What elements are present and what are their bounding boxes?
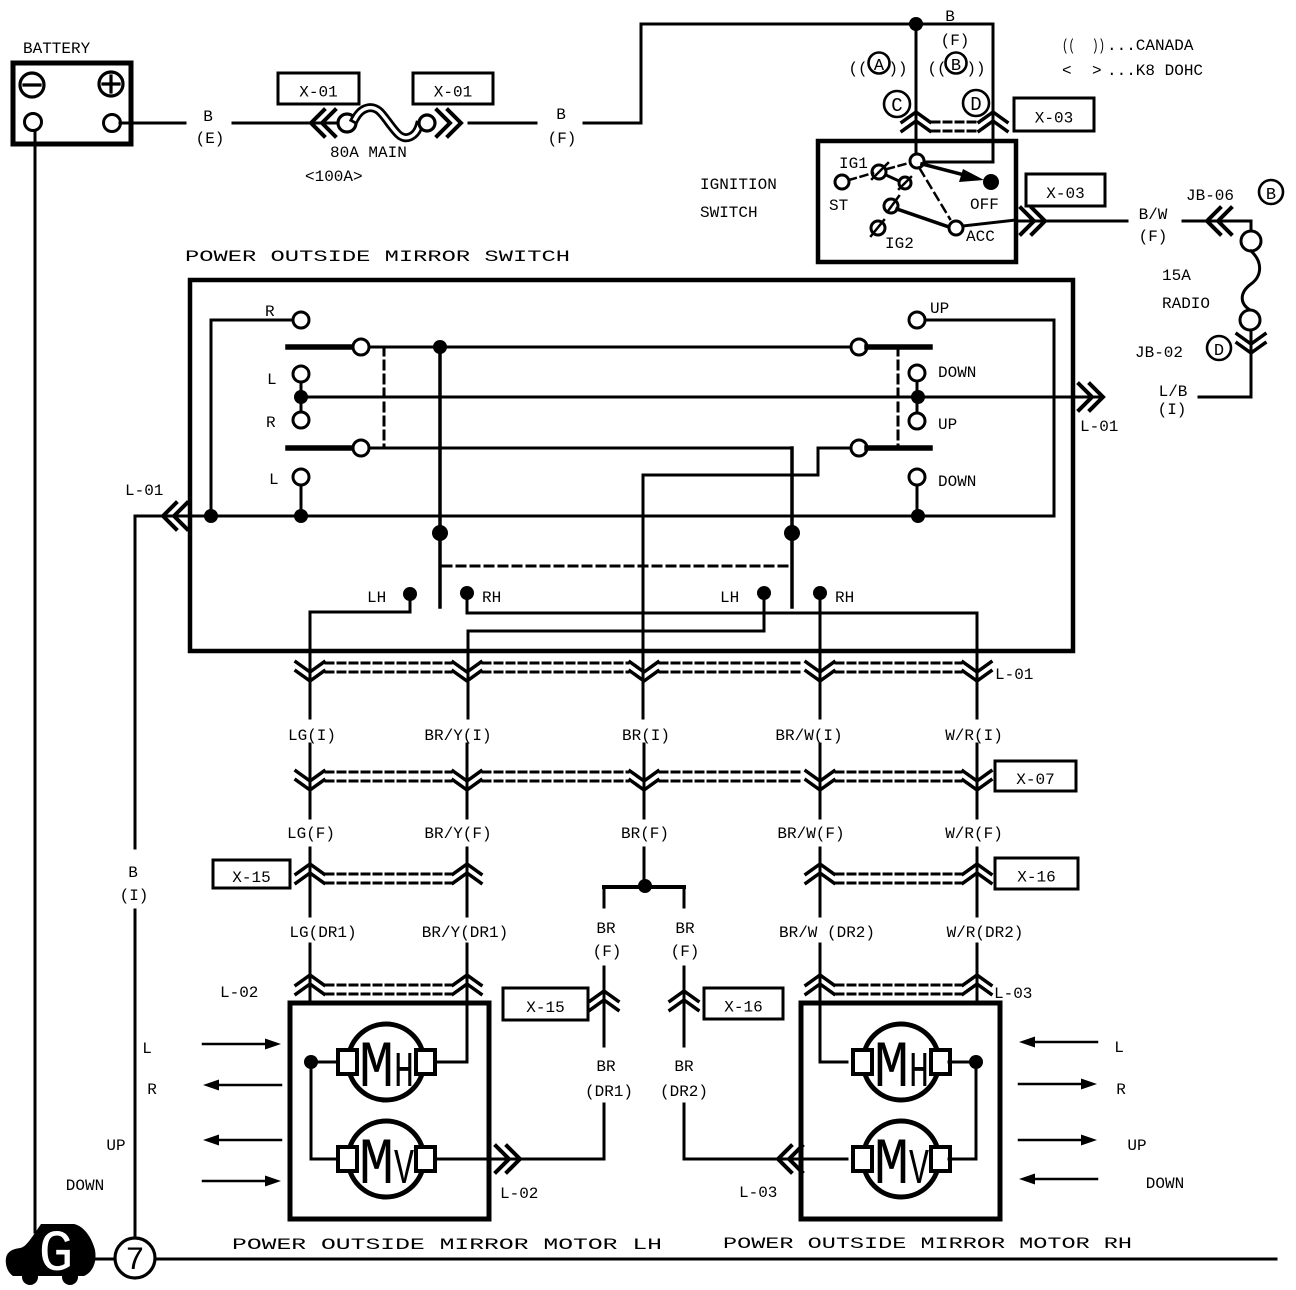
svg-text:)): ))	[889, 60, 908, 78]
svg-text:M: M	[359, 1128, 394, 1203]
svg-text:80A MAIN: 80A MAIN	[330, 144, 407, 162]
svg-text:BR/W(F): BR/W(F)	[777, 825, 844, 843]
svg-text:D: D	[970, 94, 981, 116]
svg-text:BR: BR	[596, 1058, 616, 1076]
svg-text:(F): (F)	[671, 943, 700, 961]
svg-text:B: B	[556, 106, 566, 124]
svg-text:IG1: IG1	[839, 155, 868, 173]
svg-text:ST: ST	[829, 197, 848, 215]
svg-text:7: 7	[125, 1242, 144, 1279]
svg-text:BATTERY: BATTERY	[23, 40, 91, 58]
svg-text:R: R	[266, 414, 276, 432]
svg-text:(DR2): (DR2)	[660, 1083, 708, 1101]
svg-text:L-02: L-02	[220, 984, 258, 1002]
svg-text:B: B	[951, 57, 961, 76]
svg-text:L-03: L-03	[994, 985, 1032, 1003]
svg-text:M: M	[874, 1128, 909, 1203]
svg-text:(F): (F)	[941, 32, 970, 50]
svg-text:UP: UP	[938, 416, 957, 434]
svg-text:L: L	[142, 1040, 152, 1058]
svg-text:UP: UP	[930, 300, 949, 318]
svg-text:X-03: X-03	[1035, 110, 1073, 128]
svg-text:POWER OUTSIDE MIRROR MOTOR RH: POWER OUTSIDE MIRROR MOTOR RH	[723, 1235, 1132, 1253]
svg-text:(I): (I)	[1158, 401, 1187, 419]
svg-text:H: H	[394, 1045, 414, 1102]
svg-text:(F): (F)	[1139, 228, 1168, 246]
svg-text:(F): (F)	[548, 130, 577, 148]
svg-text:(DR1): (DR1)	[585, 1083, 633, 1101]
svg-text:IG2: IG2	[885, 235, 914, 253]
svg-text:SWITCH: SWITCH	[700, 204, 758, 222]
svg-text:((: ((	[928, 60, 947, 78]
svg-text:)): ))	[967, 60, 986, 78]
svg-text:L/B: L/B	[1159, 383, 1188, 401]
svg-text:X-16: X-16	[1017, 869, 1055, 887]
svg-text:L-03: L-03	[739, 1184, 777, 1202]
svg-text:15A: 15A	[1162, 267, 1191, 285]
svg-text:DOWN: DOWN	[938, 364, 976, 382]
svg-text:M: M	[874, 1031, 909, 1106]
svg-text:D: D	[1214, 342, 1224, 361]
svg-text:LH: LH	[367, 589, 386, 607]
svg-text:X-15: X-15	[526, 999, 564, 1017]
svg-text:L-02: L-02	[500, 1185, 538, 1203]
svg-text:M: M	[359, 1031, 394, 1106]
svg-text:C: C	[891, 95, 902, 117]
svg-text:((: ((	[1062, 37, 1075, 55]
svg-text:UP: UP	[106, 1137, 125, 1155]
svg-text:BR/Y(DR1): BR/Y(DR1)	[422, 924, 508, 942]
svg-text:DOWN: DOWN	[1146, 1175, 1184, 1193]
svg-text:B: B	[128, 864, 138, 882]
svg-text:B: B	[945, 8, 955, 26]
svg-text:L: L	[1114, 1039, 1124, 1057]
svg-text:H: H	[909, 1045, 929, 1102]
svg-text:UP: UP	[1127, 1137, 1146, 1155]
svg-text:W/R(I): W/R(I)	[945, 727, 1003, 745]
svg-text:G: G	[39, 1223, 74, 1288]
svg-text:...CANADA: ...CANADA	[1107, 37, 1194, 55]
svg-text:JB-06: JB-06	[1186, 187, 1234, 205]
svg-text:BR: BR	[675, 920, 695, 938]
svg-text:LH: LH	[720, 589, 739, 607]
svg-text:BR: BR	[674, 1058, 694, 1076]
svg-text:>: >	[1092, 62, 1102, 80]
svg-text:L-01: L-01	[125, 482, 163, 500]
svg-text:(I): (I)	[120, 887, 149, 905]
svg-text:ACC: ACC	[966, 228, 995, 246]
svg-text:B: B	[203, 108, 213, 126]
svg-text:(E): (E)	[196, 130, 225, 148]
svg-text:B/W: B/W	[1139, 206, 1168, 224]
svg-text:R: R	[1116, 1081, 1126, 1099]
svg-text:IGNITION: IGNITION	[700, 176, 777, 194]
svg-text:B: B	[1266, 186, 1276, 205]
svg-text:JB-02: JB-02	[1135, 344, 1183, 362]
svg-text:X-01: X-01	[299, 84, 337, 102]
svg-text:<: <	[1062, 62, 1072, 80]
svg-text:BR: BR	[596, 920, 616, 938]
svg-text:L: L	[269, 471, 279, 489]
svg-text:...K8 DOHC: ...K8 DOHC	[1107, 62, 1203, 80]
svg-text:POWER OUTSIDE MIRROR SWITCH: POWER OUTSIDE MIRROR SWITCH	[185, 248, 570, 266]
svg-text:RADIO: RADIO	[1162, 295, 1210, 313]
svg-text:OFF: OFF	[970, 196, 999, 214]
svg-text:RH: RH	[482, 589, 501, 607]
svg-text:W/R(F): W/R(F)	[945, 825, 1003, 843]
svg-text:X-16: X-16	[724, 999, 762, 1017]
svg-text:DOWN: DOWN	[66, 1177, 104, 1195]
svg-text:POWER OUTSIDE MIRROR MOTOR LH: POWER OUTSIDE MIRROR MOTOR LH	[232, 1236, 662, 1254]
svg-text:L: L	[267, 371, 277, 389]
svg-text:W/R(DR2): W/R(DR2)	[947, 924, 1024, 942]
svg-text:X-01: X-01	[434, 84, 472, 102]
svg-text:BR/Y(I): BR/Y(I)	[424, 727, 491, 745]
svg-text:BR(F): BR(F)	[621, 825, 669, 843]
svg-text:V: V	[909, 1142, 929, 1199]
svg-text:)): ))	[1092, 37, 1105, 55]
svg-text:((: ((	[849, 60, 868, 78]
svg-text:X-07: X-07	[1016, 771, 1054, 789]
svg-text:RH: RH	[835, 589, 854, 607]
svg-text:X-15: X-15	[232, 869, 270, 887]
svg-text:L-01: L-01	[1080, 418, 1118, 436]
svg-text:R: R	[147, 1081, 157, 1099]
svg-text:BR/W(I): BR/W(I)	[775, 727, 842, 745]
svg-text:LG(I): LG(I)	[288, 727, 336, 745]
svg-text:LG(DR1): LG(DR1)	[289, 924, 356, 942]
svg-text:BR/W (DR2): BR/W (DR2)	[779, 924, 875, 942]
svg-text:R: R	[265, 303, 275, 321]
svg-text:L-01: L-01	[995, 666, 1033, 684]
svg-text:X-03: X-03	[1046, 185, 1084, 203]
svg-text:DOWN: DOWN	[938, 473, 976, 491]
svg-text:BR/Y(F): BR/Y(F)	[424, 825, 491, 843]
svg-text:LG(F): LG(F)	[287, 825, 335, 843]
svg-text:(F): (F)	[593, 943, 622, 961]
svg-text:<100A>: <100A>	[305, 168, 363, 186]
svg-text:V: V	[394, 1142, 414, 1199]
svg-text:BR(I): BR(I)	[622, 727, 670, 745]
svg-text:A: A	[874, 57, 885, 76]
